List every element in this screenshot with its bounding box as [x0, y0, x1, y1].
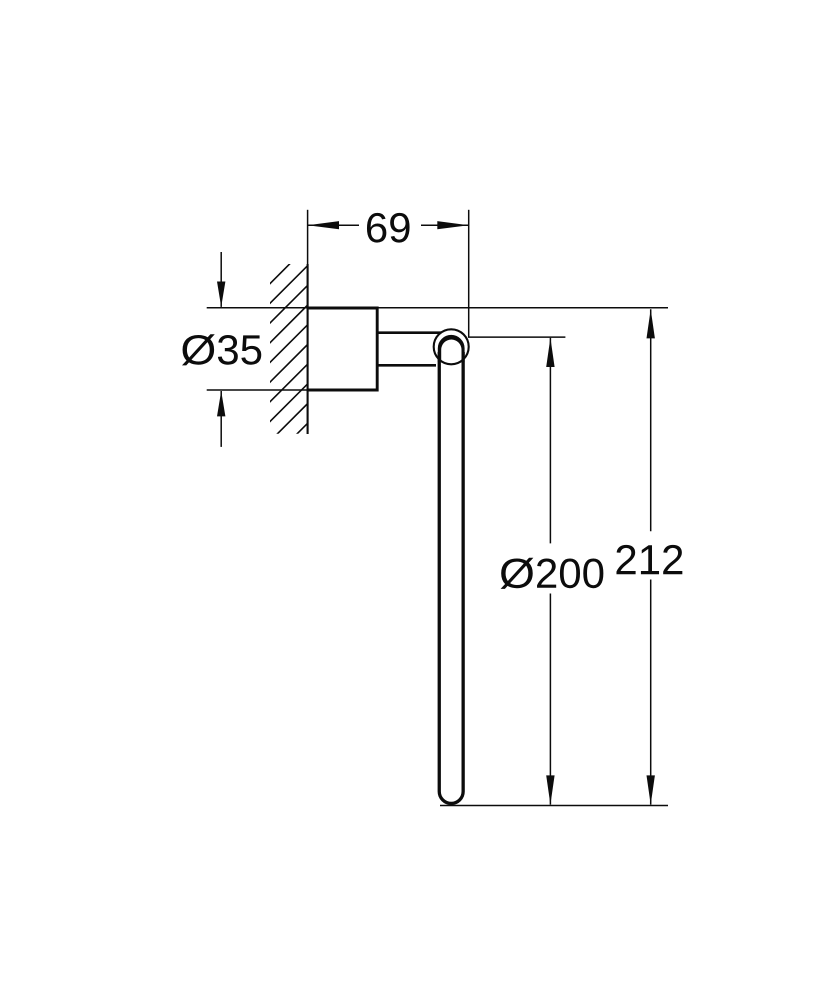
- bottom reference line of rosette (y=390): [207, 389, 308, 391]
- dia200 up arrow: [546, 338, 554, 367]
- ring tube (left line, bottom cap, right line): [439, 352, 463, 803]
- arm top line: [377, 331, 441, 334]
- dia200 top extension line: [468, 336, 565, 338]
- label dia 35: [182, 334, 261, 365]
- 212 up arrow: [647, 309, 655, 338]
- 212 dimension line upper: [650, 309, 652, 531]
- dimension line 69: [308, 224, 359, 226]
- arrowhead 69 right: [437, 221, 468, 229]
- label 212: [616, 545, 682, 574]
- dimension top extension line (69 left / wall): [307, 210, 309, 264]
- 212 down arrow: [647, 775, 655, 804]
- dimension right extension line (69 right): [468, 210, 470, 337]
- dia35 top arrow: [220, 252, 222, 307]
- wall hatching: [262, 246, 308, 469]
- wall face line: [307, 264, 309, 434]
- dia200 dimension line lower: [549, 594, 551, 805]
- pivot outer circle: [434, 329, 469, 364]
- 212 dimension line lower: [650, 580, 652, 805]
- dia35 bottom arrow: [220, 391, 222, 447]
- rosette (mounting base): [307, 308, 378, 390]
- label dia 200: [501, 558, 604, 589]
- top reference line (y=308): [207, 307, 668, 309]
- label 69: [367, 213, 410, 243]
- dia200 dimension line upper: [549, 338, 551, 544]
- bottom extension line: [440, 805, 668, 807]
- dia200 down arrow: [546, 775, 554, 804]
- arm bottom line: [377, 364, 436, 367]
- arrowhead 69 left: [308, 221, 339, 229]
- pivot thick arc (tube bent over pivot, with white dome): [438, 335, 465, 362]
